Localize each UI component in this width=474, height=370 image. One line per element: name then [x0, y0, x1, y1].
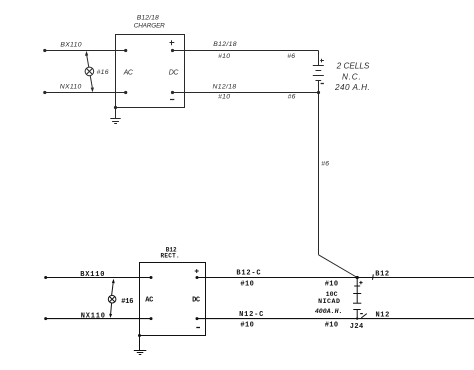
battery BT2 (10C NICAD 400A.H.): [353, 278, 361, 319]
svg-text:B12/18: B12/18: [137, 14, 159, 21]
node charger AC pin dot (top): [124, 49, 127, 52]
ground (rectifier chassis): [134, 336, 147, 355]
svg-text:#10: #10: [325, 322, 339, 330]
svg-text:J24: J24: [350, 323, 364, 331]
label 10C NICAD 400A.H.: [315, 291, 343, 315]
node charger DC- pin dot: [171, 91, 174, 94]
pin - (rectifier DC output): [196, 327, 200, 329]
node ground junction dot (rectifier): [138, 334, 141, 337]
node charger DC+ pin dot: [171, 49, 174, 52]
node charger AC pin dot (bottom): [124, 91, 127, 94]
pin - (battery BT2): [360, 313, 363, 315]
svg-text:N12/18: N12/18: [213, 83, 237, 90]
node BX110 terminal dot (rectifier): [44, 276, 47, 279]
svg-text:BX110: BX110: [80, 271, 105, 279]
lamp DS2 (indicator, circle with X): [108, 295, 116, 303]
svg-text:AC: AC: [123, 70, 134, 77]
ground (charger chassis): [110, 108, 120, 124]
label 2 CELLS N.C. 240 A.H.: [334, 62, 370, 92]
svg-text:#6: #6: [287, 53, 295, 60]
wire BX110 input (rectifier): [46, 277, 151, 279]
svg-text:400A.H.: 400A.H.: [315, 308, 343, 315]
battery BT1 (2 cells N.C. 240 A.H.): [313, 51, 324, 93]
svg-text:240 A.H.: 240 A.H.: [334, 83, 370, 92]
svg-text:#16: #16: [97, 69, 109, 76]
wire NX110 input: [45, 92, 126, 94]
node rectifier DC+ pin dot: [196, 276, 199, 279]
svg-text:#10: #10: [218, 93, 230, 100]
node BX110 terminal dot: [43, 49, 46, 52]
wire lamp to NX110 (arrow down): [90, 76, 94, 93]
node junction battery/N12 bus: [356, 317, 358, 319]
pin tick N12 connector: [361, 314, 367, 318]
svg-text:#10: #10: [240, 322, 254, 330]
svg-text:CHARGER: CHARGER: [134, 22, 165, 29]
wire N12/18 (charger - to battery): [173, 92, 319, 94]
svg-text:#16: #16: [121, 298, 133, 306]
svg-text:B12/18: B12/18: [213, 41, 237, 48]
svg-text:B12: B12: [375, 271, 389, 279]
svg-text:BX110: BX110: [60, 42, 81, 49]
svg-text:N12-C: N12-C: [239, 311, 264, 319]
svg-text:#6: #6: [321, 161, 329, 168]
node NX110 terminal dot (rectifier): [44, 317, 47, 320]
svg-text:#10: #10: [325, 280, 339, 288]
svg-text:DC: DC: [192, 297, 200, 305]
pin + (battery BT2): [359, 281, 362, 284]
svg-text:#6: #6: [288, 93, 296, 100]
pin - (charger DC output): [170, 99, 174, 101]
wire lamp DS2 to NX110 (arrow down): [109, 303, 112, 318]
rectifier U2 title label: [160, 246, 180, 259]
wire NX110 input (rectifier): [46, 318, 151, 320]
svg-text:N.C.: N.C.: [342, 72, 362, 81]
wire #6 vertical (battery to rectifier bus): [318, 93, 320, 255]
node junction diagonal/B12 bus: [356, 276, 359, 279]
wire BX110 input: [45, 50, 126, 52]
node rectifier DC- pin dot: [196, 317, 199, 320]
charger U1 box: [116, 35, 185, 108]
node junction battery/N12/18: [317, 91, 320, 94]
pin - (battery BT1): [321, 83, 324, 85]
svg-text:DC: DC: [169, 70, 180, 77]
svg-text:NX110: NX110: [81, 312, 106, 320]
wire B12/18 (charger + to battery): [173, 50, 319, 52]
svg-text:NICAD: NICAD: [318, 298, 340, 305]
pin + (rectifier DC output): [195, 269, 199, 273]
node ground junction dot: [114, 106, 117, 109]
wire lamp to BX110 (arrow up): [85, 51, 89, 67]
wire B12-C bus: [197, 277, 474, 279]
svg-text:N12: N12: [376, 312, 390, 320]
svg-text:AC: AC: [145, 297, 153, 305]
wire diagonal to B12 bus: [319, 255, 358, 278]
pin tick B12 connector: [372, 274, 375, 280]
wire lamp DS2 to BX110 (arrow up): [112, 279, 115, 296]
svg-text:#10: #10: [218, 53, 230, 60]
svg-text:RECT.: RECT.: [160, 253, 180, 260]
svg-text:B12-C: B12-C: [236, 270, 261, 278]
rectifier U2 box: [140, 263, 206, 336]
svg-text:2 CELLS: 2 CELLS: [336, 62, 370, 71]
svg-text:NX110: NX110: [60, 83, 82, 90]
charger U1 title label: [134, 14, 165, 29]
node rectifier AC pin dot (top): [150, 276, 153, 279]
pin + (charger DC output): [170, 40, 175, 45]
svg-text:#10: #10: [240, 280, 254, 288]
node rectifier AC pin dot (bottom): [150, 317, 153, 320]
lamp DS1 (indicator, circle with X): [85, 67, 94, 76]
node NX110 terminal dot: [43, 91, 46, 94]
wire N12-C bus: [197, 318, 474, 320]
pin + (battery BT1): [320, 59, 324, 63]
